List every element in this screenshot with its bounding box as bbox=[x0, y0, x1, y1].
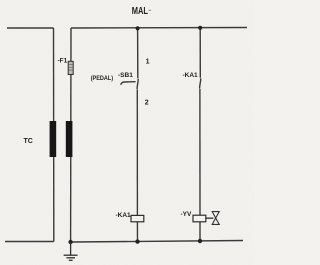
switch SB1 blade bbox=[137, 79, 138, 89]
svg-text:1: 1 bbox=[146, 59, 150, 66]
node: junction dot top KA1 branch bbox=[198, 26, 202, 30]
relay coil KA1 body bbox=[131, 215, 144, 221]
svg-text:-KA1: -KA1 bbox=[116, 212, 132, 219]
svg-text:TC: TC bbox=[24, 138, 33, 145]
paper background bbox=[0, 0, 255, 265]
wire: YV coil to valve symbol bbox=[206, 217, 214, 219]
wire: SB1 branch below coil bbox=[136, 222, 138, 243]
node: junction dot bottom fuse/ground branch bbox=[68, 240, 72, 244]
transformer TC primary winding bar bbox=[50, 121, 57, 157]
valve symbol (two triangles) of YV bbox=[212, 212, 219, 225]
contact KA1 blade bbox=[200, 78, 201, 88]
wire: top rail right segment bbox=[71, 27, 247, 30]
transformer TC secondary winding bar bbox=[66, 121, 73, 157]
wire: bottom rail bbox=[71, 241, 243, 243]
node: junction dot top SB1 branch bbox=[136, 26, 140, 30]
svg-text:-F1: -F1 bbox=[58, 58, 68, 65]
node: junction dot bottom SB1 branch bbox=[135, 239, 139, 243]
pedal actuator linkage of SB1 bbox=[121, 82, 136, 85]
wire: SB1 branch upper segment bbox=[137, 28, 139, 78]
svg-text:-YV: -YV bbox=[181, 211, 193, 218]
wire: fuse branch vertical bbox=[70, 28, 72, 242]
wire: bottom left horizontal bbox=[5, 241, 54, 243]
wire: KA1 contact branch upper segment bbox=[199, 28, 201, 78]
solenoid valve coil YV body bbox=[193, 215, 206, 222]
svg-text:-KA1: -KA1 bbox=[183, 72, 199, 79]
node: junction dot bottom YV branch bbox=[198, 239, 202, 243]
wire: KA1 branch lower segment to YV coil bbox=[199, 89, 201, 215]
svg-text:(PEDAL): (PEDAL) bbox=[91, 75, 113, 82]
fuse F1 body bbox=[68, 61, 73, 74]
wire: KA1 branch below YV coil bbox=[199, 222, 201, 241]
wire: SB1 branch lower segment to coil bbox=[136, 90, 138, 216]
svg-text:2: 2 bbox=[145, 100, 149, 107]
scan mark after MAL bbox=[149, 10, 151, 11]
svg-text:MAL: MAL bbox=[132, 6, 148, 17]
ground symbol bbox=[64, 242, 78, 260]
svg-text:-SB1: -SB1 bbox=[118, 72, 133, 79]
wire: top rail left segment with corner down bbox=[7, 27, 54, 29]
wire: left vertical (transformer primary lead) bbox=[53, 28, 55, 242]
